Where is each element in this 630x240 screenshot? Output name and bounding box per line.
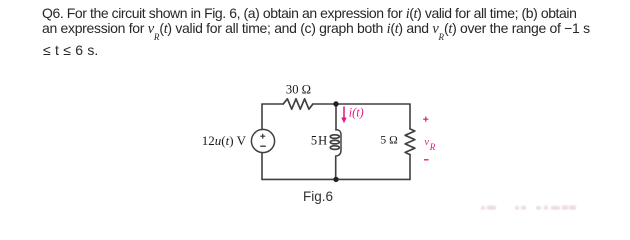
svg-text:Fig.6: Fig.6 — [303, 189, 333, 204]
current arrow i(t) — [341, 107, 346, 124]
svg-text:v: v — [424, 137, 429, 148]
source minus sign — [260, 145, 266, 147]
wire: top-right segment — [313, 103, 410, 105]
resistor R 5ohm zigzag — [405, 129, 415, 155]
wire: left branch lower — [261, 153, 263, 180]
wire: right branch lower — [409, 155, 411, 180]
label minus (vR polarity) — [424, 159, 429, 161]
inductor L 5H loop 2 — [330, 140, 339, 144]
wire: right branch upper — [409, 104, 411, 129]
problem text line 3 — [43, 41, 98, 59]
svg-text:i(t): i(t) — [349, 106, 364, 120]
svg-text:5 Ω: 5 Ω — [380, 134, 398, 147]
inductor L 5H loop 1 — [330, 135, 339, 139]
wire: middle branch lower — [335, 156, 337, 179]
source plus sign — [260, 134, 265, 139]
svg-text:12u(t) V: 12u(t) V — [202, 133, 247, 148]
label plus (vR polarity) — [423, 117, 428, 122]
svg-text:5: 5 — [311, 133, 317, 147]
problem text line 1 — [42, 4, 576, 23]
node dot bottom (junction of middle branch and bottom wire) — [333, 177, 338, 182]
svg-text:R: R — [429, 142, 436, 152]
problem text line 2 — [42, 19, 590, 38]
resistor R 30ohm zigzag — [283, 99, 313, 109]
node dot top (junction of middle branch and top wire) — [333, 101, 338, 106]
wire: top-left segment — [262, 103, 283, 105]
faint cropped watermark text row at bottom edge — [481, 205, 576, 210]
voltage source circle 12u(t) V — [251, 129, 274, 152]
svg-text:30 Ω: 30 Ω — [286, 83, 311, 97]
inductor L 5H loop 3 — [330, 146, 339, 150]
svg-text:H: H — [318, 133, 327, 147]
wire: left branch upper — [261, 104, 263, 129]
wire: middle branch upper — [335, 104, 337, 130]
inductor L 5H coil strand — [336, 130, 341, 157]
wire: bottom segment — [262, 178, 410, 180]
